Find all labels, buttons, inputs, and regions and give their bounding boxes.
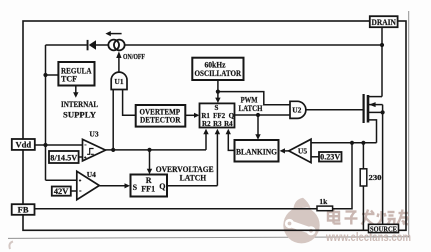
wire: oscillator to U2 top input [218,92,290,105]
svg-text:FF2: FF2 [213,112,226,120]
wire: Vdd pin to U3 input [35,144,83,146]
svg-text:R2: R2 [202,120,211,128]
wire: current sense line to U5 plus input [311,142,377,144]
wire: U1 right input from overtemp detector [123,90,136,116]
gate U2 (AND, output to MOSFET gate) [290,101,306,118]
char zi [346,210,357,212]
svg-text:BLANKING: BLANKING [236,148,277,157]
wire: current source to drain node [125,44,383,46]
channel bar [367,95,370,123]
pin box DRAIN [370,16,398,27]
arrow: U5 output into blanking [280,148,289,153]
svg-text:U5: U5 [298,147,307,156]
svg-text:SOURCE: SOURCE [370,226,397,233]
svg-text:60kHz: 60kHz [205,60,226,69]
char dian [328,212,339,221]
wire: U1 left input from U3 output node [112,90,114,150]
comparator U5 (current limit, pointing left) [289,139,311,162]
pin box SOURCE [369,224,399,232]
svg-text:LATCH: LATCH [180,173,207,182]
comparator U3 (UVLO 8/14.5V, hysteresis) [83,139,106,161]
node: drain wire junction [380,43,384,47]
wire: oscillator output [217,80,219,92]
svg-text:www.elecfans.com: www.elecfans.com [325,232,411,244]
latch FF1 (overvoltage latch) [131,175,168,197]
svg-text:U4: U4 [87,170,96,179]
svg-text:1k: 1k [319,197,328,206]
pin box Vdd [12,139,35,150]
char fa [362,213,375,215]
U3 input polarity marks [84,145,86,159]
node: U3 output junction to U1 [111,148,115,152]
overtemp detector block [136,105,186,127]
latch FF2 (PWM latch) [200,103,235,127]
svg-text:S: S [133,183,138,192]
watermark bottom-left fragment [9,242,13,250]
gate U1 (AND, pointing up) [111,72,127,89]
svg-text:230: 230 [369,173,382,182]
arrow: R2 input of FF2 from U3 output [203,129,208,150]
wire: 42V to U4 minus input [71,190,77,192]
svg-text:DETECTOR: DETECTOR [140,116,181,125]
node: sense line junction to 1k [350,141,354,145]
wire: ON/OFF control from U1 up into current source [116,51,121,72]
watermark chinese text 电子发烧友 [328,210,408,225]
blanking block [235,140,279,162]
U4 input polarity marks [79,179,82,191]
IC boundary rectangle [23,21,406,230]
oscillator block [192,58,243,80]
body/source vertical to SOURCE pin [382,105,384,225]
arrow: regulator to internal supply [73,86,78,98]
svg-text:0.23V: 0.23V [320,153,340,162]
svg-text:ON/OFF: ON/OFF [123,52,145,61]
reference 0.23V box [319,152,342,162]
arrow above current source [105,31,121,36]
svg-text:8/14.5V: 8/14.5V [50,154,77,163]
arrow: U4 output to S of FF1 [99,183,130,188]
pin box FB [12,204,35,215]
svg-text:DRAIN: DRAIN [371,17,396,27]
wire: rail corner to U4 plus input [46,179,77,181]
svg-text:U1: U1 [114,77,123,86]
body arrow [368,104,383,106]
wire: U3 output row to R2 corner [106,149,207,151]
char shao [380,211,382,219]
node: sense line junction to 230 [361,141,365,145]
comparator U4 (overvoltage 42V) [77,171,100,199]
node: Vdd junction [43,143,47,147]
regulator block [58,62,94,86]
node: oscillator branch junction [216,90,220,94]
MOSFET Q1 power switch [364,27,385,224]
source stub [368,111,383,113]
svg-text:R3: R3 [213,120,222,128]
threshold 8/14.5V box [49,151,79,163]
wire: tap to regulator [46,74,59,76]
svg-text:FF1: FF1 [141,185,155,194]
char you [399,212,409,214]
wire: FF1 Q output [167,185,217,187]
arrow: overtemp to R1 of FF2 [185,113,199,118]
svg-text:TCF: TCF [61,75,77,84]
wire: top-left feed from internal rail to diode [46,44,87,46]
drain vertical from DRAIN pin [381,27,383,96]
svg-text:U3: U3 [89,130,98,139]
svg-text:S: S [215,104,219,112]
svg-text:SUPPLY: SUPPLY [63,111,96,120]
svg-text:LATCH: LATCH [239,104,264,113]
svg-text:42V: 42V [54,187,69,196]
arrow: Q to blanking trigger [255,115,260,140]
svg-text:R1: R1 [201,112,210,120]
svg-text:U2: U2 [292,106,301,115]
arrow: oscillator to S of FF2 [215,92,220,103]
drain stub [368,96,382,98]
node: regulator tap junction [43,73,47,77]
resistor R1k body [317,206,333,211]
wire: FF2 Q output to U2 bottom input [235,114,291,116]
resistor R230 with wires [360,143,367,231]
wire: U2 output to gate [306,109,364,111]
svg-text:OSCILLATOR: OSCILLATOR [195,69,242,78]
wire: U5 minus input from 0.23V reference [311,156,319,158]
wire: 1k to sense node [333,143,352,209]
threshold 42V box [52,187,71,196]
wire: FB pin to 1k resistor [35,208,318,210]
sense stub [368,120,377,143]
diode D1 (startup, pointing left) [87,40,109,50]
svg-text:R4: R4 [224,120,233,128]
hysteresis symbol inside U3 [87,149,94,155]
svg-text:Vdd: Vdd [16,139,32,149]
current source I1 (startup current source, two circles) [108,40,124,51]
svg-text:Q: Q [229,112,235,120]
wire: internal vertical rail x=45.5 (Vdd node) [45,45,47,180]
arrow: R4 input of FF2 from blanking output [226,129,235,151]
wire: 8/14.5V to U3 minus input [79,156,83,158]
node: body-source junction [381,110,385,114]
node: Q wire junction to blanking [256,113,260,117]
arrow: down to R input of FF1 [147,150,152,174]
svg-text:INTERNAL: INTERNAL [61,100,98,109]
arrow: R3 input of FF2 from FF1 Q [215,129,220,186]
node: U3 output junction to FF1 R [147,148,151,152]
svg-text:FB: FB [18,205,29,215]
gate bar [363,94,365,123]
svg-text:Q: Q [159,182,165,191]
svg-text:PWM: PWM [241,95,258,104]
watermark logo (elecfans) [283,198,319,244]
